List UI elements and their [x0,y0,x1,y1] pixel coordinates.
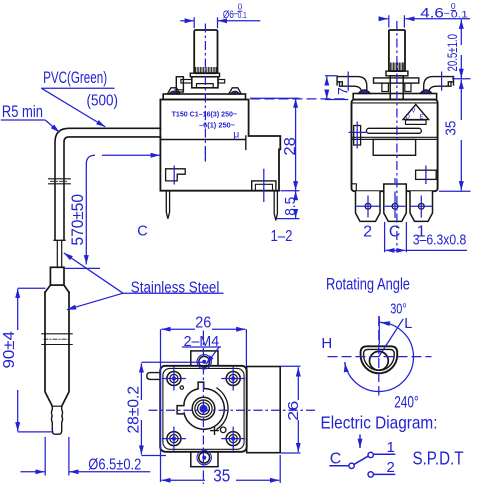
svg-text:Stainless Steel: Stainless Steel [131,279,220,296]
svg-text:D: D [406,115,411,121]
svg-text:0.1: 0.1 [451,9,468,19]
svg-text:8.5: 8.5 [282,197,299,216]
svg-text:S.P.D.T: S.P.D.T [413,448,464,469]
svg-text:35: 35 [443,121,459,136]
svg-text:1: 1 [387,439,395,456]
svg-text:28: 28 [282,137,299,156]
svg-text:2: 2 [387,459,395,476]
svg-text:–: – [444,8,450,19]
svg-text:3–6.3x0.8: 3–6.3x0.8 [413,232,467,248]
svg-text:T150 C1–16(3) 250~: T150 C1–16(3) 250~ [172,109,238,118]
svg-text:2–M4: 2–M4 [184,334,220,350]
svg-text:26: 26 [195,314,211,331]
svg-text:C: C [137,224,147,240]
svg-text:Electric Diagram:: Electric Diagram: [321,413,438,433]
svg-text:0.1: 0.1 [238,10,247,20]
svg-text:(500): (500) [87,92,119,109]
svg-text:240°: 240° [394,393,419,411]
svg-text:V: V [412,109,416,115]
svg-text:570±50: 570±50 [69,194,87,246]
svg-text:90±4: 90±4 [1,331,18,369]
svg-text:28±0.2: 28±0.2 [126,386,143,434]
svg-text:4.6: 4.6 [420,5,444,20]
svg-text:H: H [321,335,332,352]
svg-text:1–2: 1–2 [271,228,293,245]
svg-text:20.5±1.0: 20.5±1.0 [445,34,460,72]
svg-text:PVC(Green): PVC(Green) [43,68,107,87]
svg-text:Rotating Angle: Rotating Angle [326,275,410,293]
svg-text:L: L [404,316,412,332]
svg-text:2: 2 [363,224,372,241]
svg-text:C: C [389,224,401,241]
svg-text:Ø6.5±0.2: Ø6.5±0.2 [88,456,141,473]
svg-text:–6(1) 250~: –6(1) 250~ [199,121,236,130]
svg-text:E: E [420,115,424,121]
svg-text:7: 7 [335,87,351,95]
svg-text:35: 35 [213,465,230,485]
svg-text:R5 min: R5 min [2,103,43,121]
svg-text:μ: μ [233,129,239,141]
svg-text:26: 26 [286,401,302,421]
svg-text:C: C [330,451,342,468]
